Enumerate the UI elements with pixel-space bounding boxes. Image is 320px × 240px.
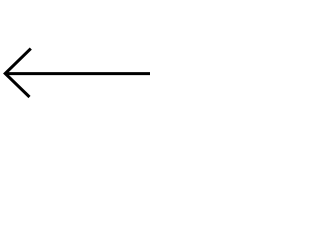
left arrow icon bbox=[0, 0, 150, 150]
arrowhead (left-pointing chevron) bbox=[5, 49, 31, 97]
arrow shaft (horizontal line to right edge) bbox=[5, 72, 150, 75]
